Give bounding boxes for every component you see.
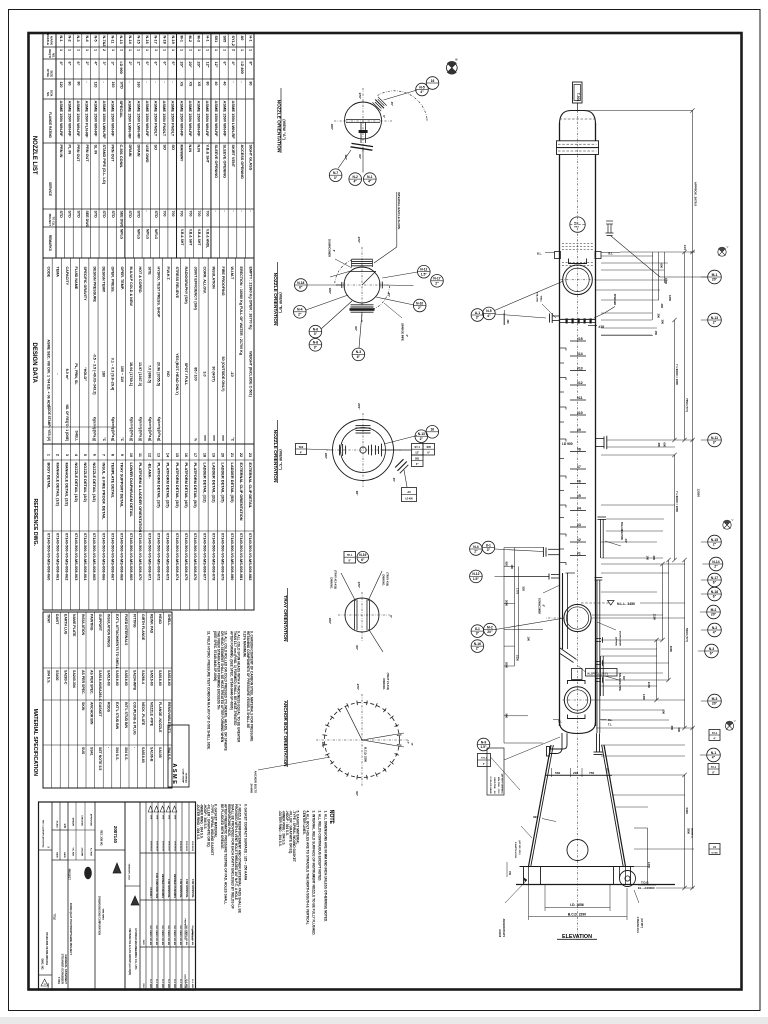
- svg-text:SERVICE: SERVICE: [48, 182, 52, 196]
- svg-text:B.L.: B.L.: [608, 719, 613, 722]
- BL tabs: [555, 252, 561, 259]
- svg-text:2": 2": [713, 543, 717, 547]
- bottom gray scan edge: [0, 1017, 768, 1024]
- reference dwg code separator: [43, 530, 254, 532]
- svg-text:304 S.S.: 304 S.S.: [115, 747, 119, 760]
- svg-text:16: 16: [431, 79, 435, 83]
- svg-text:1: 1: [249, 49, 253, 51]
- svg-text:FLANGE -NOZZLE: FLANGE -NOZZLE: [158, 702, 162, 733]
- svg-text:NOZZLE ORIENTATION: NOZZLE ORIENTATION: [272, 273, 278, 326]
- svg-text:A0: A0: [240, 36, 244, 41]
- view B top flange stack: [352, 258, 373, 260]
- view B right nozzle stub: [379, 283, 381, 288]
- svg-text:Kg/cm²g [kPa.g]: Kg/cm²g [kPa.g]: [139, 417, 143, 441]
- reference dwg table frame: [43, 444, 254, 610]
- svg-text:2: 2: [56, 454, 60, 456]
- left balloon row3: [470, 570, 483, 583]
- svg-text:6": 6": [299, 286, 303, 290]
- svg-text:SA516-60: SA516-60: [158, 670, 162, 686]
- svg-text:07140-500-V0-MS-008-075: 07140-500-V0-MS-008-075: [184, 533, 189, 581]
- svg-text:N-2: N-2: [353, 175, 358, 179]
- svg-text:20": 20": [188, 62, 192, 68]
- svg-text:MANHOLE DETAIL (1/2): MANHOLE DETAIL (1/2): [56, 463, 61, 507]
- svg-text:07140-500-V0-MS-008-064: 07140-500-V0-MS-008-064: [83, 533, 88, 581]
- leader M-2 to balloons: [496, 618, 565, 630]
- svg-text:N-13: N-13: [711, 316, 718, 320]
- svg-text:12: 12: [147, 453, 151, 457]
- svg-text:1: 1: [111, 49, 115, 51]
- tray axes: [338, 614, 390, 616]
- svg-text:S05: S05: [223, 36, 227, 43]
- svg-text:DWN NO.: DWN NO.: [382, 574, 386, 586]
- top head: [560, 111, 596, 125]
- svg-text:SY-2: SY-2: [712, 733, 718, 735]
- seal pan bracket lower: [568, 715, 586, 719]
- svg-text:T.O.G.: T.O.G.: [641, 881, 650, 885]
- svg-text:ASME 150# WN-RF: ASME 150# WN-RF: [67, 101, 72, 138]
- svg-text:7 x Φ400 = 2800: 7 x Φ400 = 2800: [675, 491, 679, 512]
- svg-text:07140-500-V0-MS-008-063: 07140-500-V0-MS-008-063: [74, 533, 79, 581]
- title block frame: [39, 802, 196, 990]
- title block vertical dividers: [51, 802, 53, 990]
- svg-text:I.D 900: I.D 900: [119, 62, 123, 74]
- svg-text:180°: 180°: [330, 124, 334, 131]
- svg-text:2008: 2008: [174, 815, 176, 819]
- svg-text:BODY DETAIL: BODY DETAIL: [46, 463, 51, 490]
- svg-text:N-3: N-3: [356, 350, 361, 354]
- svg-text:SEE DWG: SEE DWG: [119, 211, 123, 228]
- svg-text:N-13: N-13: [418, 432, 425, 436]
- svg-text:8-1: 8-1: [486, 543, 491, 547]
- svg-text:I.D 400: I.D 400: [405, 498, 413, 501]
- svg-text:#11: #11: [577, 396, 583, 400]
- svg-text:7550 (T/T): 7550 (T/T): [685, 398, 689, 412]
- svg-text:#12: #12: [577, 381, 583, 385]
- svg-text:85 / 100: 85 / 100: [193, 367, 197, 380]
- svg-text:ANCHOR B/N: ANCHOR B/N: [89, 702, 93, 725]
- title block scale date cells: [52, 829, 68, 831]
- svg-text:300: 300: [657, 443, 661, 448]
- svg-text:07140-500-V0-MS-008-060: 07140-500-V0-MS-008-060: [46, 533, 51, 580]
- svg-text:STD: STD: [128, 211, 132, 219]
- svg-text:900: 900: [505, 714, 509, 719]
- svg-text:SPOT / FULL: SPOT / FULL: [184, 363, 188, 386]
- svg-text:S02: S02: [299, 446, 304, 449]
- svg-text:VIETNAM OIL & GAS GROUP (c/o D: VIETNAM OIL & GAS GROUP (c/o DQR): [128, 928, 131, 975]
- svg-text:#1: #1: [577, 552, 581, 556]
- svg-text:3": 3": [713, 441, 717, 445]
- svg-text:V.B.& SHT: V.B.& SHT: [197, 229, 201, 246]
- anchor chairs: [524, 867, 541, 885]
- svg-text:2": 2": [418, 306, 422, 310]
- svg-text:1300: 1300: [642, 694, 646, 700]
- svg-text:6": 6": [171, 62, 175, 66]
- svg-text:SA105: SA105: [158, 747, 162, 758]
- svg-text:STD: STD: [119, 82, 123, 90]
- svg-text:N-1: N-1: [59, 36, 63, 42]
- svg-text:2009.01/20: 2009.01/20: [161, 841, 163, 852]
- svg-text:1: 1: [197, 49, 201, 51]
- svg-text:NECK -PLATE: NECK -PLATE: [141, 702, 145, 726]
- svg-text:2": 2": [474, 550, 478, 554]
- svg-text:(VIEW "C"): (VIEW "C"): [279, 449, 284, 470]
- svg-text:520: 520: [522, 587, 526, 592]
- svg-text:N-15: N-15: [711, 538, 718, 542]
- svg-text:07140-500-V0-MS-008-067: 07140-500-V0-MS-008-067: [111, 533, 116, 580]
- svg-text:16: 16: [184, 453, 188, 457]
- svg-text:STD: STD: [154, 211, 158, 219]
- svg-text:EXTERNAL CLIP ORIENTATION: EXTERNAL CLIP ORIENTATION: [239, 463, 244, 521]
- svg-text:H-1: H-1: [248, 36, 252, 42]
- owner logos: [124, 802, 126, 990]
- svg-text:REQ'D: REQ'D: [48, 49, 52, 58]
- svg-text:SPARGER: SPARGER: [613, 294, 616, 306]
- svg-text:15: 15: [175, 453, 179, 457]
- svg-text:I.D 400: I.D 400: [711, 851, 718, 854]
- svg-text:SIGHT GLASS: SIGHT GLASS: [248, 145, 252, 171]
- view A 45deg nozzle flange stack: [372, 102, 381, 111]
- svg-text:LADDER DETAIL (1/2): LADDER DETAIL (1/2): [202, 463, 207, 504]
- anchor bolt circle dashed: [325, 703, 400, 778]
- svg-text:-10: -10: [230, 371, 234, 376]
- svg-text:#13: #13: [577, 367, 583, 371]
- svg-text:2-EARTH LUGS: 2-EARTH LUGS: [514, 842, 517, 859]
- svg-text:K.J. KIM: K.J. KIM: [161, 979, 163, 988]
- svg-text:10: 10: [129, 453, 133, 457]
- svg-text:SA516-60: SA516-60: [124, 670, 128, 686]
- svg-text:6": 6": [68, 62, 72, 66]
- svg-text:ASME 150# WN-RF: ASME 150# WN-RF: [145, 101, 150, 138]
- svg-text:INSULATION RINGS: INSULATION RINGS: [107, 614, 111, 648]
- svg-text:2008.08/22: 2008.08/22: [191, 841, 193, 852]
- svg-text:N-17: N-17: [711, 576, 718, 580]
- svg-text:SLEEVE OPENING: SLEEVE OPENING: [214, 145, 218, 179]
- svg-text:4": 4": [713, 737, 715, 740]
- svg-text:STRESS RELIEVE: STRESS RELIEVE: [175, 267, 179, 299]
- svg-text:1000: 1000: [664, 278, 668, 284]
- svg-text:ASME 150# LWN-RF: ASME 150# LWN-RF: [102, 101, 107, 140]
- svg-text:07140-500-V0-MS-008-071: 07140-500-V0-MS-008-071: [147, 533, 152, 581]
- svg-text:3/4": 3/4": [624, 539, 627, 543]
- svg-text:3": 3": [334, 176, 338, 180]
- svg-text:1: 1: [119, 49, 123, 51]
- svg-text:WORK(U): WORK(U): [184, 773, 186, 783]
- svg-text:K.J. KIM: K.J. KIM: [149, 979, 151, 988]
- svg-text:8.0 m³: 8.0 m³: [65, 369, 69, 380]
- svg-text:5: 5: [83, 454, 87, 456]
- svg-text:2009.06/15: 2009.06/15: [149, 841, 151, 852]
- svg-text:C-501 CONN.: C-501 CONN.: [119, 145, 123, 169]
- svg-text:H-1: H-1: [205, 36, 209, 42]
- svg-text:1/30: 1/30: [63, 823, 66, 828]
- svg-text:SO: SO: [154, 145, 158, 151]
- right dim 2800 upper: [674, 320, 676, 440]
- svg-text:ASME SEC. VIII DIV. 1 ’04 ED.: ASME SEC. VIII DIV. 1 ’04 ED. + 06 ADD.: [46, 339, 50, 408]
- svg-text:SET NOTE 5.5: SET NOTE 5.5: [98, 747, 102, 770]
- svg-text:S.K. KANG J.H. AN: S.K. KANG J.H. AN: [155, 925, 158, 945]
- svg-text:150: 150: [654, 331, 658, 336]
- svg-text:CODE: CODE: [46, 267, 50, 278]
- view C outer circle: [333, 420, 394, 481]
- svg-text:SITE: SITE: [147, 267, 151, 276]
- leader manway to left balloons: [495, 281, 564, 311]
- svg-text:180°: 180°: [328, 618, 332, 625]
- svg-text:FIXED INTERNALS: FIXED INTERNALS: [124, 614, 128, 646]
- vessel tag T-501: [573, 82, 583, 103]
- svg-text:SA240-304: SA240-304: [72, 670, 76, 688]
- svg-text:CODE STAMP : YES (U): CODE STAMP : YES (U): [47, 406, 51, 441]
- svg-text:N-17: N-17: [433, 277, 440, 281]
- svg-text:N-18: N-18: [297, 281, 304, 285]
- svg-text:HYDRO. TEST PRESS. SHOP: HYDRO. TEST PRESS. SHOP: [157, 267, 161, 318]
- svg-text:BALANCE PIPE: BALANCE PIPE: [618, 673, 621, 691]
- svg-text:1: 1: [76, 49, 80, 51]
- svg-text:ASME 150# WN-RF: ASME 150# WN-RF: [76, 101, 81, 138]
- svg-text:150: 150: [508, 871, 511, 876]
- svg-text:8": 8": [248, 62, 252, 66]
- svg-text:ERECTION : 16080 Kg FULL OF W: ERECTION : 16080 Kg FULL OF WATER : 2170…: [239, 267, 243, 356]
- svg-text:SO: SO: [162, 145, 166, 151]
- svg-text:N-18: N-18: [711, 590, 718, 594]
- svg-text:160: 160: [137, 82, 141, 88]
- svg-text:2": 2": [476, 647, 480, 651]
- svg-text:N.J.PNT.(↓ 270°): N.J.PNT.(↓ 270°): [588, 671, 608, 675]
- svg-text:COUPLING & PLUG: COUPLING & PLUG: [132, 702, 136, 735]
- svg-text:1: 1: [188, 49, 192, 51]
- svg-text:AS PER SPEC.: AS PER SPEC.: [81, 670, 85, 695]
- svg-text:AS BUILT: AS BUILT: [149, 887, 152, 898]
- view B swing arcs: [335, 260, 352, 285]
- svg-text:8: 8: [111, 454, 115, 456]
- svg-text:#15: #15: [577, 337, 583, 341]
- svg-text:SKIRT VENT: SKIRT VENT: [231, 145, 235, 168]
- svg-text:2": 2": [713, 321, 717, 325]
- svg-text:S01: S01: [415, 458, 420, 461]
- svg-text:2008: 2008: [150, 815, 152, 819]
- svg-text:PLATFORM DETAIL (4/5): PLATFORM DETAIL (4/5): [184, 463, 189, 509]
- svg-text:4": 4": [712, 756, 716, 760]
- view C left tag: [296, 444, 307, 455]
- svg-text:6": 6": [710, 652, 714, 656]
- svg-text:6": 6": [357, 355, 361, 359]
- svg-text:ASME 150# WN-RF: ASME 150# WN-RF: [110, 101, 115, 138]
- svg-text:TRAY: TRAY: [46, 614, 50, 624]
- svg-text:N-3: N-3: [709, 647, 714, 651]
- svg-text:A S M E: A S M E: [171, 763, 177, 784]
- rec job no: [95, 849, 125, 851]
- right dim end ticks: [690, 108, 694, 112]
- svg-text:#3: #3: [577, 523, 581, 527]
- svg-text:(VIEW "A"): (VIEW "A"): [282, 119, 287, 140]
- svg-text:270°: 270°: [358, 93, 362, 100]
- svg-text:RADIOGRAPHY (S/H): RADIOGRAPHY (S/H): [184, 267, 188, 305]
- design data units separator: [43, 426, 116, 428]
- svg-text:N-10: N-10: [416, 301, 423, 305]
- svg-text:90°: 90°: [355, 791, 359, 796]
- svg-text:I.D 900: I.D 900: [562, 442, 573, 446]
- svg-text:SY-1: SY-1: [711, 767, 717, 769]
- svg-text:XS: XS: [197, 82, 201, 87]
- svg-text:ASME 150# WN-RF: ASME 150# WN-RF: [197, 101, 202, 138]
- view C axes: [326, 449, 402, 451]
- svg-text:N-1: N-1: [711, 751, 716, 755]
- svg-text:N-16: N-16: [145, 36, 149, 44]
- svg-text:SA516-60/SA283-C: SA516-60/SA283-C: [98, 670, 102, 702]
- internal support ring dashes: [562, 243, 593, 245]
- left dim horizontal ticks: [504, 547, 543, 549]
- svg-text:3800: 3800: [687, 828, 691, 834]
- internal ring dashes below BL: [562, 262, 593, 264]
- svg-text:K.J. KIM: K.J. KIM: [191, 979, 193, 988]
- svg-text:120: 120: [59, 82, 63, 88]
- svg-text:15°: 15°: [410, 743, 412, 746]
- view C A0 boxed tag: [402, 488, 417, 502]
- svg-text:80: 80: [205, 82, 209, 86]
- svg-text:APPROVED: APPROVED: [89, 814, 92, 827]
- right dim 2150 pair: [662, 564, 664, 640]
- svg-text:300: 300: [661, 320, 665, 325]
- svg-text:1: 1: [94, 49, 98, 51]
- svg-text:14.5: 14.5: [683, 245, 687, 251]
- svg-text:SEE DWG: SEE DWG: [85, 211, 89, 228]
- view A lower leaders: [362, 147, 364, 173]
- svg-text:2: 2: [102, 49, 106, 51]
- svg-text:REVISED AS MARKS: REVISED AS MARKS: [173, 874, 176, 898]
- tray downcomer chords: [354, 601, 356, 630]
- svg-text:PRN OUT: PRN OUT: [76, 145, 80, 163]
- svg-text:600: 600: [660, 264, 664, 269]
- svg-text:700: 700: [205, 211, 209, 217]
- view A bottom flange: [352, 143, 374, 146]
- svg-text:WELL: WELL: [539, 296, 541, 303]
- svg-text:20.96 [2055.5]: 20.96 [2055.5]: [157, 362, 161, 387]
- svg-text:(TRAY #16): (TRAY #16): [386, 572, 390, 586]
- svg-text:700: 700: [188, 211, 192, 217]
- svg-text:M-3: M-3: [197, 36, 201, 43]
- anchor bolt BCD radial: [345, 706, 362, 740]
- svg-text:07140-500-V0-MS-008-062: 07140-500-V0-MS-008-062: [65, 533, 70, 581]
- svg-text:2009.04/20: 2009.04/20: [155, 841, 158, 852]
- skirt outline: [529, 745, 552, 867]
- svg-text:80: 80: [249, 82, 253, 86]
- svg-text:T.L.: T.L.: [558, 721, 562, 724]
- svg-text:07140-500-V0-MS-008-070: 07140-500-V0-MS-008-070: [138, 533, 143, 580]
- svg-text:AS PER SPEC.: AS PER SPEC.: [89, 670, 93, 695]
- svg-text:13: 13: [157, 453, 161, 457]
- leader N-4 to balloons: [495, 549, 543, 552]
- svg-text:(SEE SPEC. 07140-9440-SP-0006): (SEE SPEC. 07140-9440-SP-0006): [213, 631, 217, 681]
- svg-text:REV.: REV.: [142, 984, 144, 989]
- svg-text:(TRAY #1-#12): (TRAY #1-#12): [386, 673, 390, 690]
- svg-text:SA516-60: SA516-60: [167, 670, 171, 686]
- svg-text:K.J. KIM: K.J. KIM: [167, 979, 169, 988]
- svg-text:(TRAY #13-#15): (TRAY #13-#15): [334, 570, 338, 589]
- svg-text:2008: 2008: [168, 815, 170, 819]
- material specification table frame: [43, 612, 172, 788]
- title block left column cells: [39, 849, 53, 851]
- svg-text:EL. +100300: EL. +100300: [638, 886, 655, 890]
- tags near view C bottom: [344, 552, 356, 564]
- svg-text:(VIEW "B"): (VIEW "B"): [279, 292, 284, 313]
- svg-text:360: 360: [506, 320, 509, 325]
- svg-text:2": 2": [435, 281, 439, 285]
- svg-text:12550: 12550: [697, 489, 701, 498]
- girth flange: [557, 141, 599, 148]
- svg-text:N-2: N-2: [68, 36, 72, 42]
- svg-text:TRAY ORIENTATION: TRAY ORIENTATION: [282, 595, 288, 642]
- svg-text:270°: 270°: [357, 582, 361, 589]
- svg-text:HEAD: HEAD: [158, 614, 162, 624]
- svg-text:P.W.H.T.: P.W.H.T.: [166, 267, 170, 281]
- svg-text:M.A.W.P COLD & NEW: M.A.W.P COLD & NEW: [129, 267, 133, 307]
- svg-text:NOZZLE -PIPE: NOZZLE -PIPE: [150, 702, 154, 727]
- svg-text:SL IN: SL IN: [93, 145, 97, 155]
- svg-text:6": 6": [361, 558, 365, 562]
- svg-text:2150: 2150: [647, 682, 651, 689]
- view B balloon N-4: [294, 306, 307, 319]
- side fitting at right: [606, 220, 613, 222]
- svg-text:(S485B-C): (S485B-C): [690, 828, 693, 838]
- svg-text:SO: SO: [171, 145, 175, 151]
- left balloons row1: [471, 309, 484, 322]
- svg-text:-OUTER RING : 304 S.S.: -OUTER RING : 304 S.S.: [278, 811, 282, 847]
- right dim 2800 lower: [674, 455, 676, 560]
- svg-text:600: 600: [663, 443, 667, 448]
- svg-text:20": 20": [711, 613, 717, 617]
- svg-text:4": 4": [59, 62, 63, 66]
- svg-text:07140-500-V0-MS-008-066: 07140-500-V0-MS-008-066: [101, 533, 106, 581]
- svg-text:HYUNDAI ENGINEERING CO., LTD.: HYUNDAI ENGINEERING CO., LTD.: [134, 929, 137, 971]
- svg-text:160: 160: [111, 82, 115, 88]
- svg-text:GENERAL ASSEMBLY: GENERAL ASSEMBLY: [64, 954, 68, 984]
- svg-text:16: 16: [430, 428, 434, 432]
- svg-text:2008.10/27: 2008.10/27: [167, 841, 169, 852]
- view C right leader: [382, 449, 412, 451]
- svg-text:SA106-B: SA106-B: [150, 747, 154, 762]
- svg-text:24-M48: 24-M48: [249, 784, 253, 794]
- svg-text:J.H.AHN: J.H.AHN: [80, 847, 83, 856]
- title block drawn checked approved: [68, 829, 95, 831]
- svg-text:VINA HINES: VINA HINES: [102, 909, 105, 921]
- svg-text:FOR APPROVAL: FOR APPROVAL: [179, 879, 182, 898]
- view B leaders left: [308, 284, 342, 286]
- svg-text:PRN OUT: PRN OUT: [85, 145, 89, 163]
- svg-text:22: 22: [239, 453, 243, 457]
- svg-text:90°: 90°: [355, 491, 359, 496]
- svg-text:50 (OUTSIDE ONLY): 50 (OUTSIDE ONLY): [221, 357, 225, 393]
- svg-text:LADDER DETAIL (2/2): LADDER DETAIL (2/2): [211, 463, 216, 504]
- svg-text:ASME 150# WN-RF: ASME 150# WN-RF: [59, 101, 64, 138]
- svg-text:RTNG: RTNG: [46, 69, 50, 77]
- svg-text:Kg/cm²g [kPa.g]: Kg/cm²g [kPa.g]: [148, 417, 152, 441]
- svg-text:2": 2": [298, 312, 302, 316]
- svg-text:TP-1: TP-1: [347, 554, 353, 557]
- svg-text:SUPPORT: SUPPORT: [98, 614, 102, 632]
- svg-text:450: 450: [660, 304, 664, 309]
- svg-text:3": 3": [476, 632, 480, 636]
- svg-text:24-M48: 24-M48: [498, 929, 501, 938]
- svg-text:M-3: M-3: [712, 697, 718, 701]
- svg-text:Kg/cm²g [kPa.g]: Kg/cm²g [kPa.g]: [129, 417, 133, 441]
- svg-text:1: 1: [59, 49, 63, 51]
- left dim vertical main: [503, 548, 505, 744]
- contractor logo: [84, 867, 92, 879]
- svg-text:SPECIAL: SPECIAL: [119, 101, 124, 119]
- view A balloon N-5: [416, 83, 429, 96]
- svg-text:ASME 150# LWN-RF: ASME 150# LWN-RF: [231, 101, 236, 140]
- svg-text:AFTER FORMING. (SEE SPEC. 0714: AFTER FORMING. (SEE SPEC. 07140-9440-SP-…: [230, 631, 234, 710]
- svg-text:4000: 4000: [669, 646, 673, 653]
